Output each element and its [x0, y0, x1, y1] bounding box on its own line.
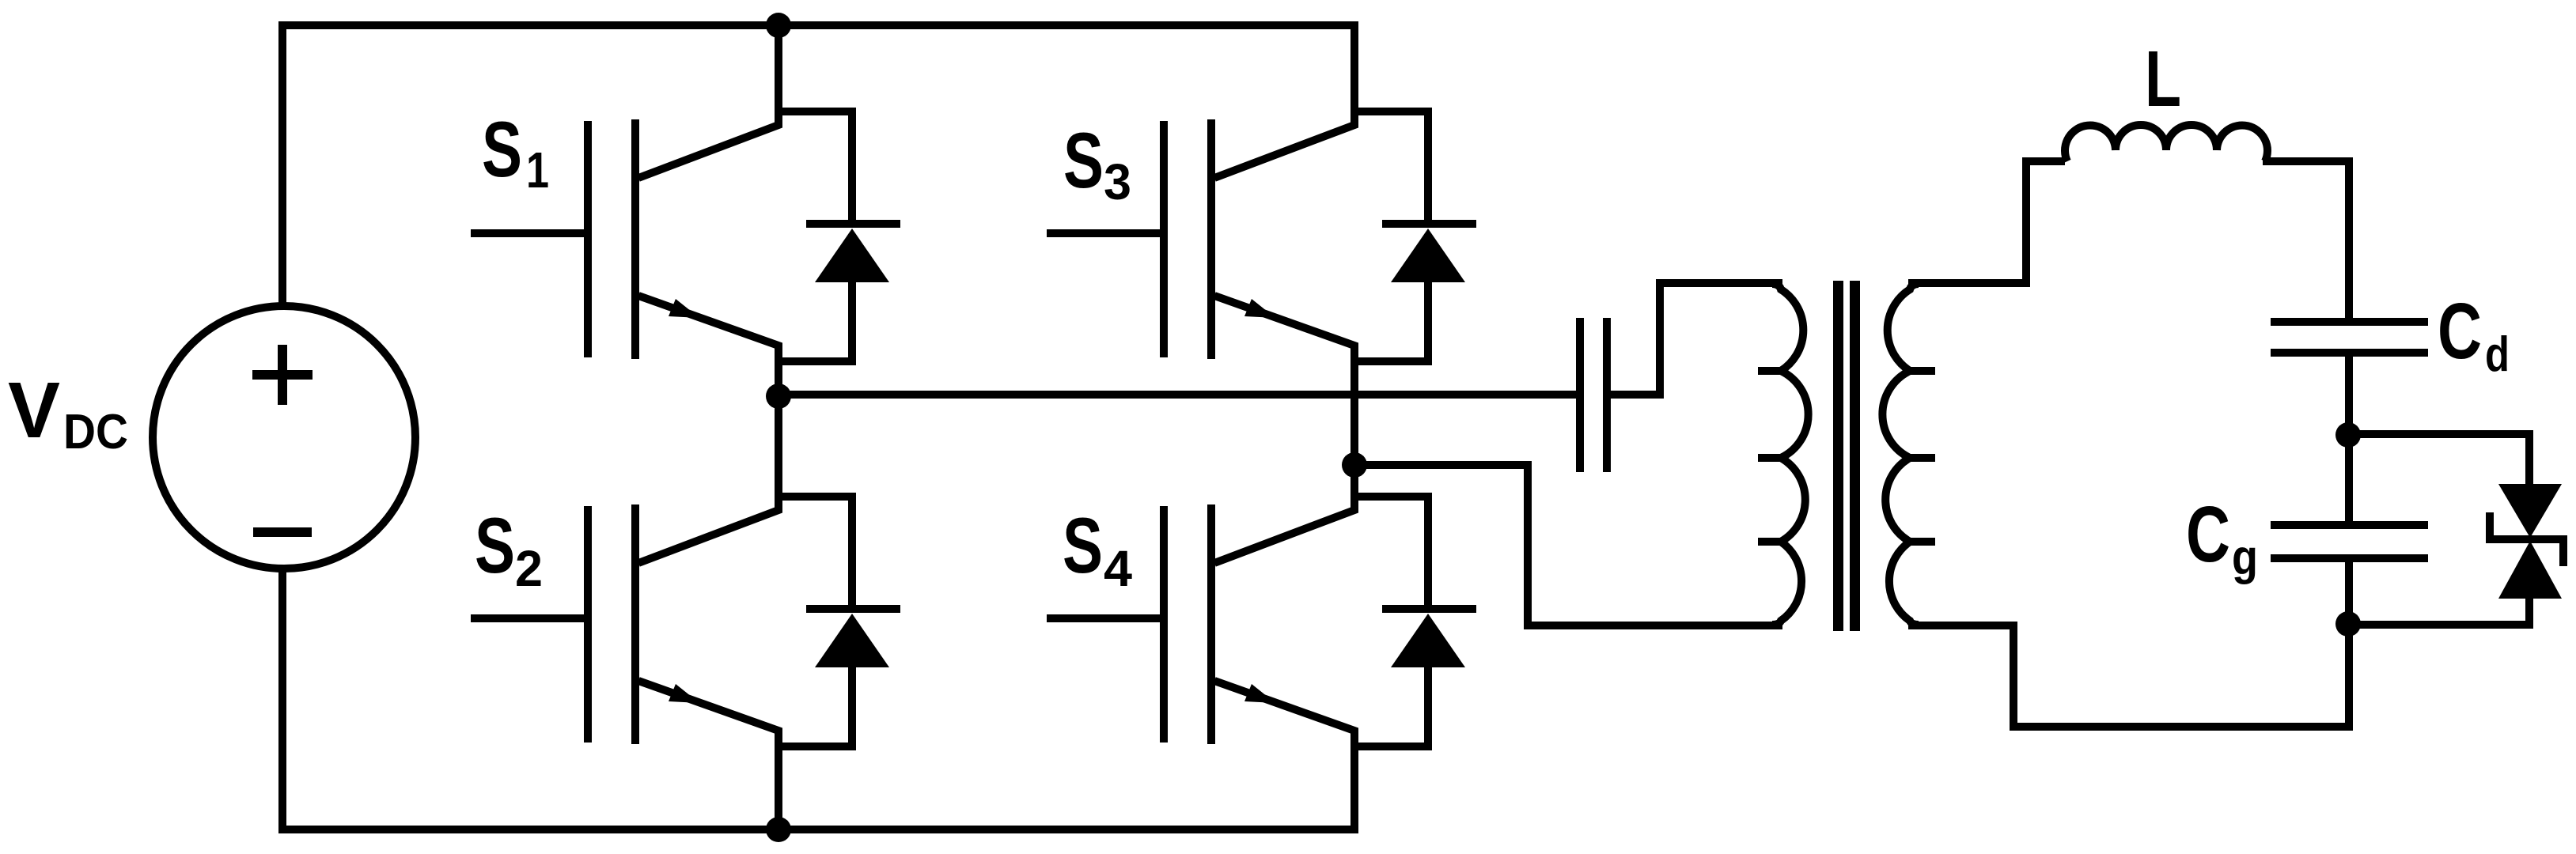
- capacitor Cd top plate: [2271, 318, 2428, 326]
- capacitor C (dc-block) right plate: [1603, 318, 1611, 472]
- svg-text:1: 1: [526, 142, 549, 198]
- gap device bottom triangle: [2498, 541, 2562, 599]
- wire: VDC minus lead, bottom rail, S4 emitter riser: [282, 569, 1354, 829]
- svg-text:2: 2: [515, 540, 543, 597]
- wire: capacitor to transformer primary top: [1611, 283, 1782, 395]
- node: Cd-Cg junction: [2335, 422, 2361, 448]
- transformer core: [1833, 281, 1843, 631]
- svg-text:V: V: [8, 366, 60, 455]
- capacitor Cg bottom plate: [2271, 554, 2428, 562]
- wire: junction to gap device top: [2348, 434, 2529, 487]
- transistor S1: [471, 107, 900, 365]
- svg-text:DC: DC: [63, 405, 128, 459]
- transformer primary winding: [1772, 284, 1809, 625]
- svg-text:C: C: [2438, 287, 2482, 376]
- wire: Cg bottom return to secondary bottom: [1908, 561, 2349, 727]
- capacitor C (dc-block) left plate: [1576, 318, 1584, 472]
- wire: left leg midpoint vertical: [775, 360, 782, 497]
- transistor S4: [1047, 492, 1476, 750]
- transistor S3: [1047, 107, 1476, 365]
- wire: phase A to blocking capacitor: [778, 391, 1576, 399]
- node: top rail junction: [766, 13, 791, 38]
- gap device middle bar with hooks: [2490, 512, 2563, 566]
- VDC plus sign: [252, 345, 313, 405]
- wire: secondary top to inductor: [1908, 161, 2065, 283]
- node: left leg midpoint: [766, 384, 791, 409]
- svg-text:d: d: [2485, 327, 2510, 382]
- svg-text:S: S: [1063, 501, 1103, 589]
- svg-text:g: g: [2232, 531, 2258, 585]
- wire: phase B to transformer primary bottom: [1354, 465, 1782, 625]
- wire: S1 collector drop: [775, 25, 782, 111]
- inductor L: [2065, 125, 2267, 161]
- node: right leg midpoint: [1342, 452, 1367, 478]
- transistor S2: [471, 492, 900, 750]
- transformer secondary cusp ticks: [1910, 371, 1935, 542]
- svg-text:S: S: [482, 105, 522, 193]
- capacitor Cg top plate: [2271, 521, 2428, 529]
- svg-text:4: 4: [1104, 540, 1132, 597]
- wire: VDC plus lead, top rail, S3 collector drop: [282, 25, 1354, 306]
- capacitor Cd bottom plate: [2271, 349, 2428, 357]
- svg-text:C: C: [2186, 490, 2230, 579]
- wire: right leg midpoint vertical: [1351, 360, 1358, 497]
- node: Cg bottom junction: [2335, 611, 2361, 637]
- svg-text:L: L: [2145, 35, 2181, 123]
- wire: gap device bottom to junction: [2349, 595, 2529, 625]
- svg-text:S: S: [475, 501, 515, 589]
- gap device top triangle: [2498, 484, 2562, 538]
- VDC minus sign: [253, 527, 312, 537]
- node: bottom rail junction: [766, 817, 791, 842]
- wire: inductor to Cd: [2263, 161, 2349, 319]
- wire: S2 emitter drop: [775, 747, 782, 829]
- svg-text:S: S: [1063, 116, 1104, 204]
- wire: Cd to Cg: [2345, 356, 2353, 522]
- transformer secondary winding: [1882, 284, 1919, 625]
- svg-text:3: 3: [1104, 153, 1131, 210]
- source VDC: [153, 306, 415, 569]
- transformer primary cusp ticks: [1758, 371, 1782, 542]
